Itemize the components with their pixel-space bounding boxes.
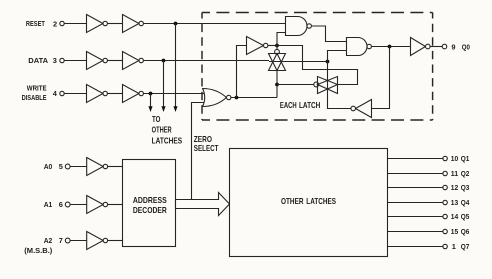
svg-text:Q1: Q1: [461, 154, 470, 163]
NAND gate G2: [347, 38, 372, 56]
label EACH LATCH: [280, 100, 320, 110]
dashed box EACH LATCH cell boundary: [202, 13, 433, 121]
terminal pin 11 Q2: [443, 171, 447, 175]
svg-text:OTHER: OTHER: [152, 125, 172, 135]
wire pin6 to inverter: [70, 204, 87, 206]
svg-text:2: 2: [53, 19, 57, 28]
svg-text:ADDRESS: ADDRESS: [133, 195, 167, 205]
terminal pin 13 Q4: [443, 200, 447, 204]
label 14 Q5: [451, 212, 470, 221]
wire RESET inverters: [107, 23, 122, 25]
wire inverter A2 to decoder: [108, 240, 123, 242]
buffer I3 output Q0: [411, 38, 431, 56]
svg-text:11: 11: [451, 169, 458, 178]
transmission gate TG1 data pass: [269, 49, 286, 70]
wire Q6 output: [388, 231, 443, 233]
wire Q1 output: [388, 158, 443, 160]
svg-text:(M.S.B.): (M.S.B.): [24, 246, 53, 255]
inverter DATA B: [123, 52, 144, 70]
terminal pin 15 Q6: [443, 229, 447, 233]
svg-text:A2: A2: [44, 236, 53, 245]
svg-text:Q5: Q5: [461, 212, 470, 221]
label ZERO SELECT: [194, 134, 219, 153]
svg-text:Q4: Q4: [461, 198, 470, 207]
wire WRITE DISABLE rail to NOR gate: [143, 93, 206, 95]
svg-text:LATCHES: LATCHES: [306, 196, 336, 206]
terminal pin 9 Q0: [442, 44, 447, 49]
wire I1 output to TG2 right control: [277, 46, 358, 85]
svg-text:Q0: Q0: [462, 42, 470, 51]
wire DATA drop to other latches: [163, 61, 165, 108]
svg-text:7: 7: [59, 236, 63, 245]
junction I1 output: [275, 44, 279, 48]
inverter A2: [87, 232, 108, 250]
wire WRITE DISABLE drop to other latches: [150, 94, 152, 108]
svg-text:RESET: RESET: [26, 19, 45, 28]
label RESET pin 2: [26, 19, 57, 28]
wire pin2 to inverter: [64, 23, 86, 25]
inverter WRITE DISABLE B: [123, 85, 144, 103]
wire control node to TG2 left bubble: [277, 84, 314, 86]
ADDRESS DECODER box: [123, 160, 176, 247]
wire pin7 to inverter: [70, 240, 87, 242]
wire NOR output node: [231, 97, 277, 99]
wire DATA inverters: [107, 60, 122, 62]
terminal pin 14 Q5: [443, 214, 447, 218]
wire TG1 through and output to latch node: [269, 61, 328, 63]
terminal pin 4: [60, 91, 64, 95]
svg-text:1: 1: [452, 242, 456, 251]
wire I2 output to TG2 bottom: [328, 94, 351, 109]
svg-text:Q3: Q3: [461, 183, 470, 192]
wire NAND G2 output to buffer I3: [371, 46, 410, 48]
label A0 pin 5: [44, 162, 63, 171]
wire latch node to NAND G2 lower input: [328, 51, 347, 62]
arrowhead RESET drop: [173, 106, 177, 112]
wire Q5 output: [388, 216, 443, 218]
wire NAND G1 output to NAND G2 upper input: [311, 26, 346, 42]
label ADDRESS DECODER: [133, 195, 167, 215]
arrowhead DATA drop: [161, 106, 165, 112]
svg-text:6: 6: [59, 200, 63, 209]
wire I1 output node: [268, 45, 277, 47]
NAND gate G1: [286, 17, 312, 36]
inverter I2 feedback: [351, 100, 372, 118]
junction NOR output: [235, 96, 239, 100]
label WRITE DISABLE pin 4: [22, 84, 58, 102]
wire Q3 output: [388, 187, 443, 189]
wire Q7 output: [388, 246, 443, 248]
svg-text:9: 9: [451, 42, 455, 51]
svg-text:10: 10: [451, 154, 458, 163]
wire DATA rail to transmission gate TG1: [143, 60, 269, 62]
label TO OTHER LATCHES: [152, 114, 183, 146]
svg-text:Q2: Q2: [461, 169, 470, 178]
inverter DATA A: [87, 52, 108, 70]
label 1 Q7: [452, 242, 470, 251]
terminal pin 1 Q7: [443, 244, 447, 248]
transmission gate TG2 feedback pass: [314, 77, 338, 94]
wire I1 output to TG1 top control: [276, 46, 278, 50]
svg-text:SELECT: SELECT: [194, 143, 219, 153]
svg-text:DATA: DATA: [28, 56, 48, 65]
label 15 Q6: [451, 227, 470, 236]
terminal pin 5: [65, 164, 70, 169]
svg-text:OTHER: OTHER: [281, 196, 304, 206]
block arrow decoder to other latches: [176, 193, 230, 216]
terminal pin 7: [65, 238, 70, 243]
junction RESET rail: [174, 22, 178, 26]
svg-text:Q7: Q7: [461, 242, 470, 251]
svg-text:Q6: Q6: [461, 227, 470, 236]
wire TG1 bottom control: [276, 71, 278, 98]
terminal pin 2: [60, 21, 64, 25]
wire I3 to Q0 terminal: [430, 46, 442, 48]
svg-text:LATCH: LATCH: [299, 100, 320, 110]
svg-text:DECODER: DECODER: [133, 205, 167, 215]
wire pin3 to inverter: [64, 60, 86, 62]
arrowhead WRITE DISABLE drop: [148, 106, 152, 112]
terminal pin 3: [60, 58, 64, 62]
wire I1 output to NAND G1 lower input: [277, 33, 286, 46]
inverter A1: [87, 196, 108, 214]
wire RESET drop to other latches: [175, 24, 177, 108]
OTHER LATCHES box: [230, 149, 388, 257]
label 11 Q2: [451, 169, 470, 178]
junction TG1 control to TG2 left control: [275, 83, 279, 87]
wire pin5 to inverter: [70, 166, 87, 168]
label OTHER LATCHES: [281, 196, 336, 206]
wire RESET rail to NAND G1 input: [143, 23, 285, 25]
label 13 Q4: [451, 198, 470, 207]
wire feedback down to inverter I2: [372, 47, 390, 109]
svg-text:EACH: EACH: [280, 100, 297, 110]
label 12 Q3: [451, 183, 470, 192]
wire inverter A1 to decoder: [108, 204, 123, 206]
wire WRITE DISABLE inverters: [107, 93, 122, 95]
svg-text:A1: A1: [44, 200, 53, 209]
label 10 Q1: [451, 154, 470, 163]
terminal pin 12 Q3: [443, 185, 447, 189]
inverter RESET A: [87, 15, 108, 33]
label 9 Q0: [451, 42, 470, 51]
svg-text:WRITE: WRITE: [27, 84, 47, 93]
svg-text:LATCHES: LATCHES: [152, 136, 183, 146]
terminal pin 6: [65, 202, 70, 207]
junction NAND G2 output: [388, 45, 392, 49]
wire pin4 to inverter: [64, 93, 86, 95]
svg-text:A0: A0: [44, 162, 53, 171]
svg-text:3: 3: [53, 56, 57, 65]
label A2 pin 7: [24, 236, 63, 255]
svg-text:15: 15: [451, 227, 458, 236]
inverter RESET B: [123, 15, 144, 33]
label DATA pin 3: [28, 56, 57, 65]
svg-text:DISABLE: DISABLE: [22, 93, 47, 102]
junction WRITE DISABLE rail: [149, 92, 153, 96]
inverter I1 write control: [247, 37, 268, 55]
label A1 pin 6: [44, 200, 63, 209]
junction DATA rail: [162, 59, 166, 63]
svg-text:13: 13: [451, 198, 458, 207]
svg-text:TO: TO: [152, 114, 161, 124]
wire inverter A0 to decoder: [108, 166, 123, 168]
NOR gate write strobe: [203, 89, 231, 107]
inverter WRITE DISABLE A: [87, 85, 108, 103]
wire latch node down through TG2: [327, 62, 329, 94]
junction latch node: [326, 60, 330, 64]
wire NOR output up to inverter I1: [237, 46, 247, 98]
wire ZERO SELECT from decoder to NOR gate: [192, 103, 207, 200]
svg-text:14: 14: [451, 212, 459, 221]
wire Q2 output: [388, 173, 443, 175]
svg-text:5: 5: [59, 162, 63, 171]
terminal pin 10 Q1: [443, 156, 447, 160]
svg-text:12: 12: [451, 183, 458, 192]
inverter A0: [87, 158, 108, 176]
wire Q4 output: [388, 202, 443, 204]
